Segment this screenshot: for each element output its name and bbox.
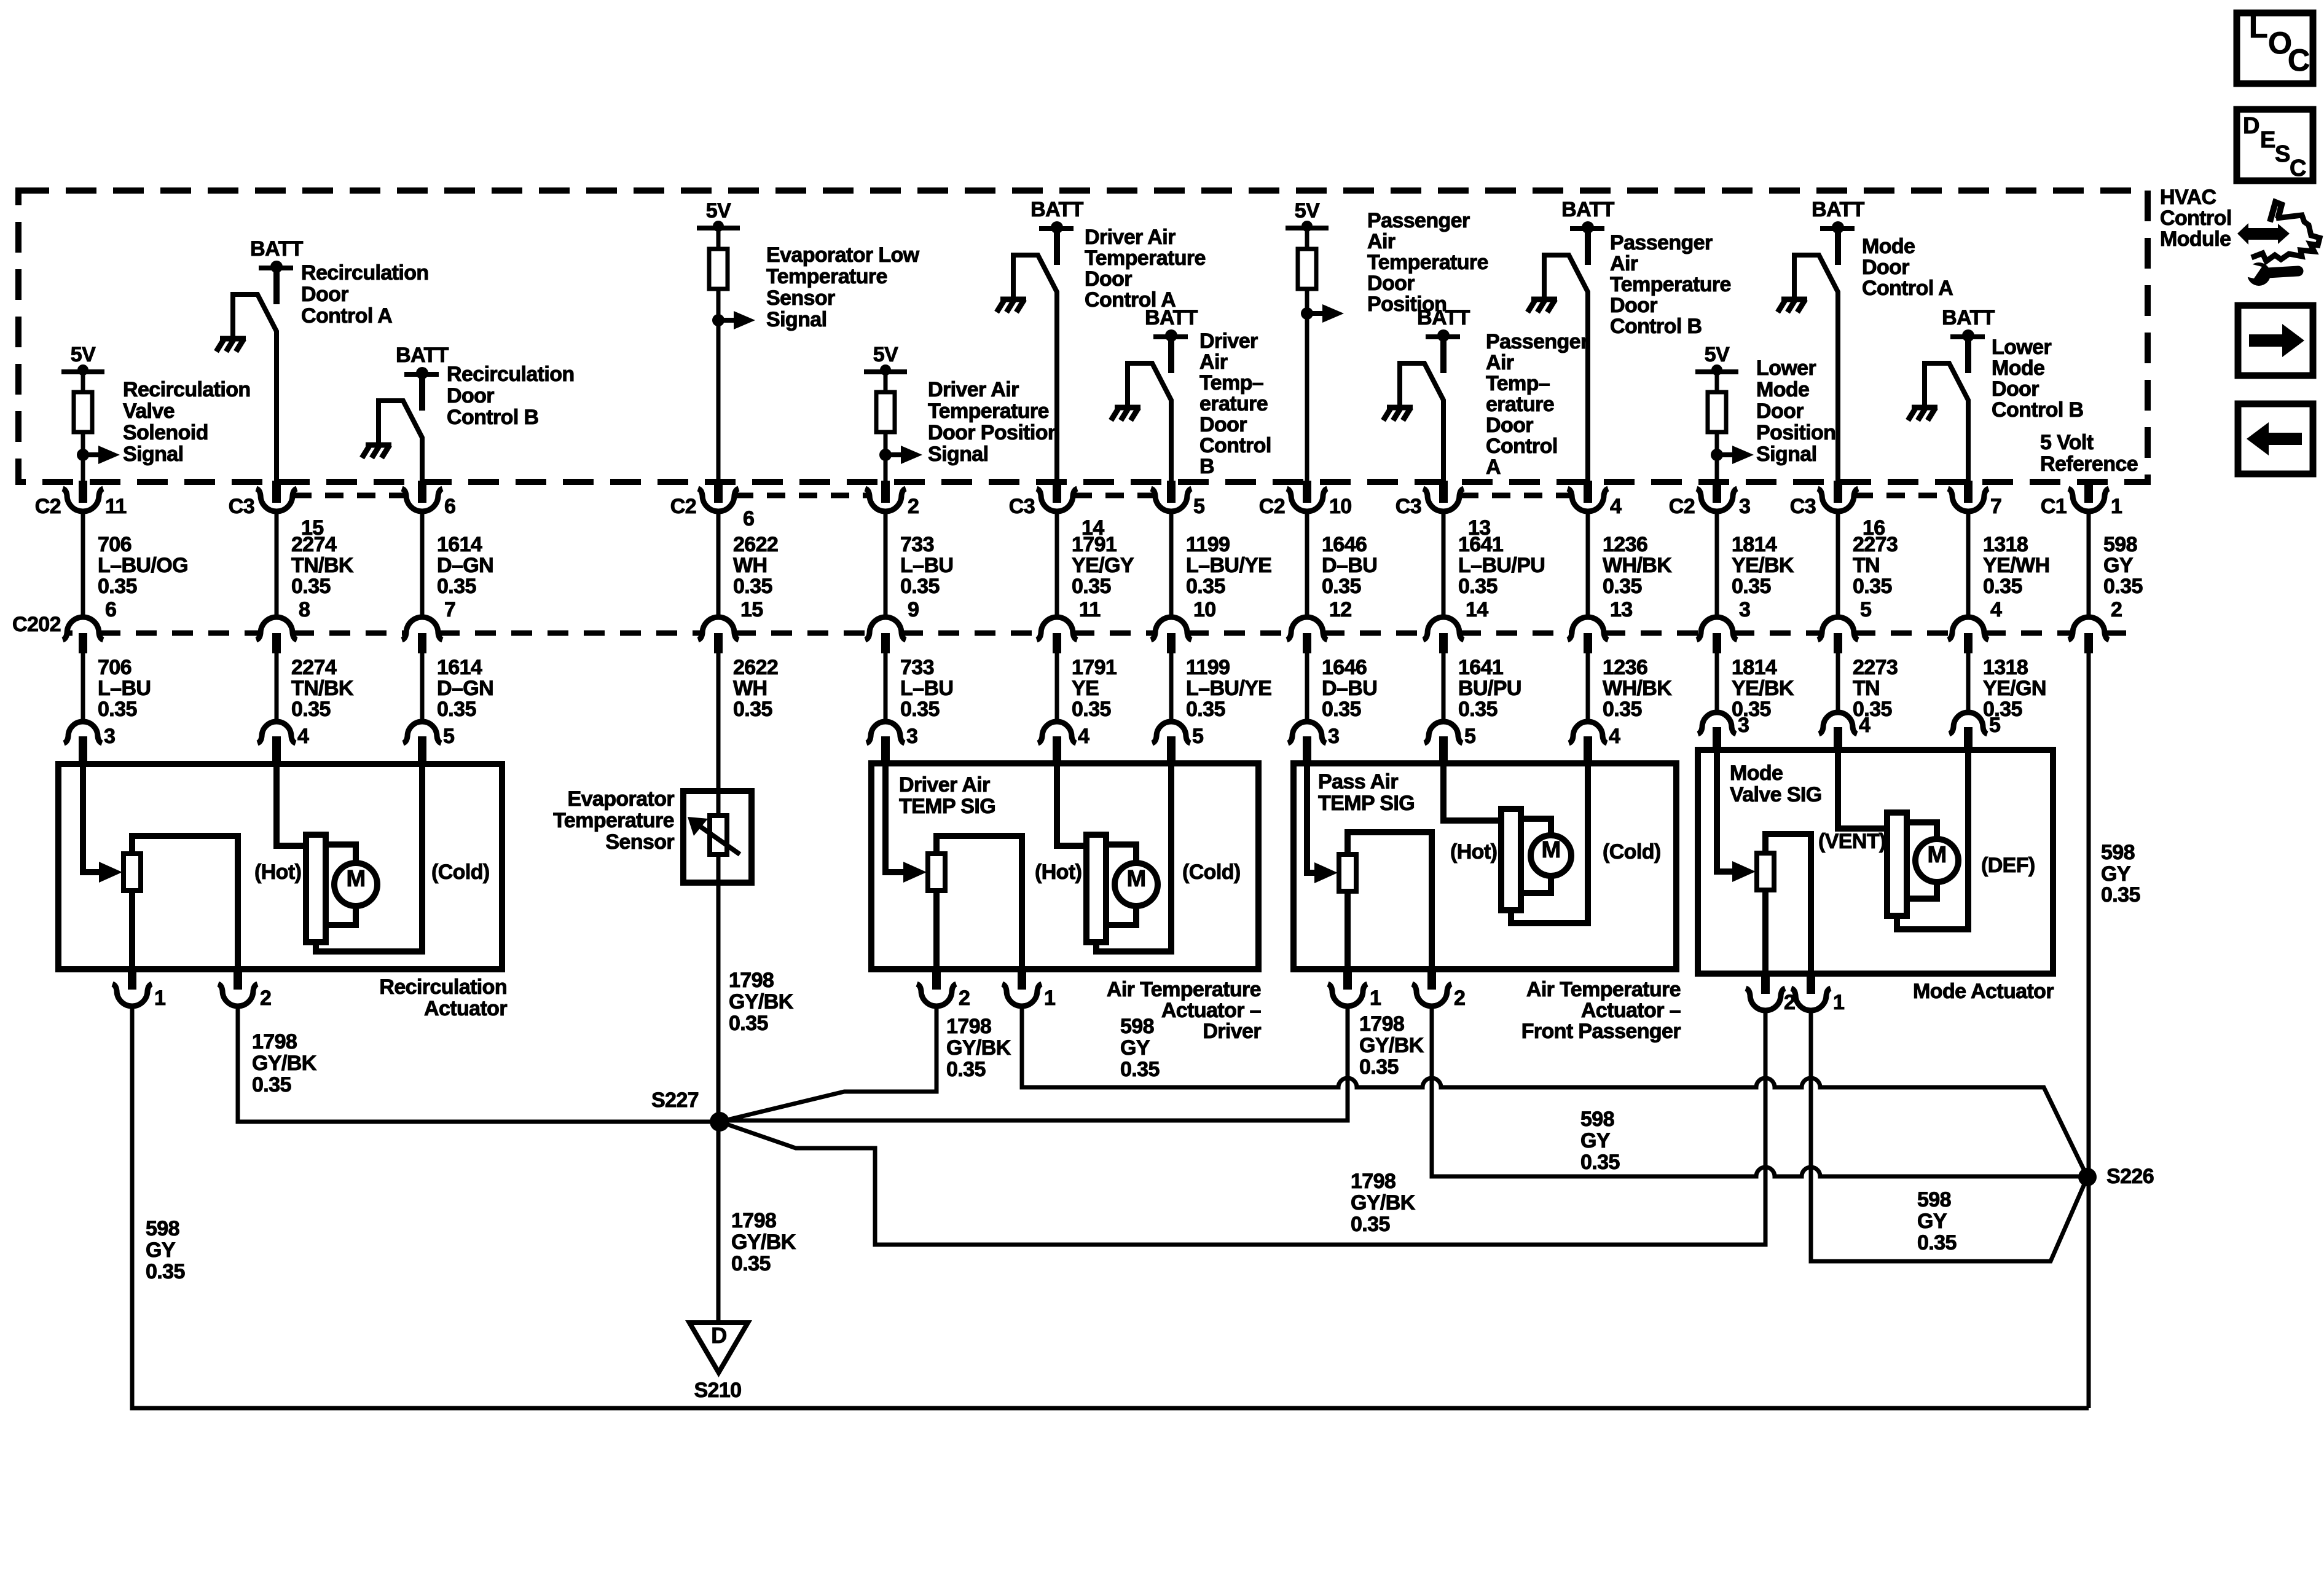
svg-text:Valve: Valve: [123, 400, 175, 423]
svg-text:5: 5: [1464, 725, 1475, 748]
svg-text:Actuator –: Actuator –: [1161, 999, 1261, 1022]
svg-text:0.35: 0.35: [733, 698, 772, 721]
svg-text:4: 4: [1990, 598, 2002, 621]
svg-text:WH/BK: WH/BK: [1603, 677, 1672, 700]
svg-text:BATT: BATT: [1417, 306, 1470, 329]
svg-text:0.35: 0.35: [2103, 575, 2143, 598]
connector C3 body dashes (pins 14-5): [1074, 493, 1155, 498]
wire: pot bottom to lower pin (Driver Air Temperature Actuator): [933, 891, 940, 969]
svg-text:Driver Air: Driver Air: [899, 773, 990, 797]
svg-text:Door: Door: [1610, 294, 1657, 317]
svg-text:Air Temperature: Air Temperature: [1526, 978, 1681, 1001]
wire 1614 D-GN 0.35 (module to C202 pin 7): [420, 511, 425, 617]
svg-text:(Cold): (Cold): [1182, 860, 1241, 884]
svg-text:GY: GY: [2103, 554, 2134, 577]
wire 706 L-BU/OG 0.35 (module to C202 pin 6): [81, 511, 85, 617]
svg-text:2273: 2273: [1853, 656, 1898, 679]
wire: position signal feed inside Mode Actuator: [1717, 750, 1733, 872]
svg-text:A: A: [1486, 455, 1501, 479]
svg-text:C2: C2: [35, 495, 61, 518]
wire: motor feed inside Passenger Air Temperature Actuator: [1443, 763, 1505, 821]
svg-text:5V: 5V: [1705, 343, 1730, 366]
wire: pot top over to second pin (Mode Actuator): [1765, 834, 1811, 974]
svg-text:C: C: [2288, 43, 2310, 77]
svg-text:YE/BK: YE/BK: [1732, 554, 1794, 577]
svg-text:2: 2: [2111, 598, 2122, 621]
svg-text:Lower: Lower: [1992, 336, 2051, 359]
svg-text:Air Temperature: Air Temperature: [1107, 978, 1261, 1001]
svg-text:Door: Door: [447, 384, 494, 408]
connector C202 pin 2 terminal: [2068, 617, 2109, 640]
svg-text:1641: 1641: [1458, 533, 1503, 556]
potentiometer element (Mode Actuator): [1757, 853, 1774, 890]
svg-text:M: M: [1126, 866, 1145, 892]
svg-text:Mode: Mode: [1756, 378, 1809, 401]
svg-text:Valve SIG: Valve SIG: [1730, 783, 1822, 806]
svg-text:Control B: Control B: [447, 406, 539, 429]
svg-text:1: 1: [2111, 495, 2122, 518]
svg-text:TEMP SIG: TEMP SIG: [899, 795, 995, 818]
svg-text:15: 15: [740, 598, 763, 621]
connector C202 pin 5 terminal: [1818, 617, 1858, 640]
svg-text:1798: 1798: [252, 1030, 297, 1053]
resistor: lower mode door position pull-up: [1708, 392, 1726, 432]
actuator connector pin 5: [1949, 712, 1987, 734]
connector C202 pin 13 terminal: [1568, 617, 1608, 640]
svg-text:TN: TN: [1853, 554, 1880, 577]
svg-text:5: 5: [1989, 714, 2000, 737]
svg-text:706: 706: [98, 656, 132, 679]
wire 733 L-BU 0.35 (module to C202 pin 9): [884, 511, 888, 617]
connector pin 7 at module exit: [1964, 481, 1973, 503]
svg-text:5: 5: [1860, 598, 1871, 621]
svg-text:WH/BK: WH/BK: [1603, 554, 1672, 577]
actuator bottom pin 1 (Passenger Air Temperature Actuator): [1343, 968, 1352, 990]
junction + signal arrow: driver air temperature door position signal: [879, 449, 892, 461]
svg-text:1236: 1236: [1603, 656, 1647, 679]
wire 1236 WH/BK 0.35 (C202 to actuator pin 4): [1586, 653, 1590, 720]
svg-text:GY/BK: GY/BK: [1359, 1034, 1424, 1057]
svg-text:0.35: 0.35: [1458, 698, 1498, 721]
thermistor diagonal arrow: [701, 827, 740, 854]
svg-text:(Hot): (Hot): [1035, 860, 1082, 884]
wire: motor feed inside Recirculation Actuator: [277, 764, 310, 846]
svg-text:BU/PU: BU/PU: [1458, 677, 1521, 700]
junction + signal arrow: passenger air temperature door position: [1301, 307, 1313, 320]
svg-text:Recirculation: Recirculation: [301, 261, 429, 285]
svg-text:Control: Control: [2160, 207, 2232, 230]
svg-text:0.35: 0.35: [437, 575, 476, 598]
svg-text:(Cold): (Cold): [431, 860, 490, 884]
motor M circle (Recirculation Actuator): [334, 863, 377, 906]
wire through evaporator temperature sensor: [716, 791, 721, 883]
svg-text:5: 5: [1193, 495, 1204, 518]
svg-text:11: 11: [1079, 598, 1101, 621]
connector pin 3 (C2) at module exit: [1713, 481, 1721, 503]
svg-text:Temperature: Temperature: [1085, 246, 1206, 270]
svg-text:Temp–: Temp–: [1199, 371, 1263, 395]
svg-text:0.35: 0.35: [1186, 575, 1225, 598]
svg-text:C: C: [2290, 156, 2306, 181]
svg-text:0.35: 0.35: [731, 1252, 771, 1275]
svg-text:L–BU: L–BU: [900, 677, 953, 700]
svg-text:Door: Door: [1862, 256, 1909, 279]
svg-text:YE/GN: YE/GN: [1983, 677, 2046, 700]
svg-text:GY: GY: [1120, 1036, 1150, 1060]
resistor: evaporator temp sensor pull-up: [709, 249, 728, 289]
wiper arrow into potentiometer (Recirculation Actuator): [99, 862, 122, 883]
svg-text:D: D: [2243, 113, 2259, 139]
svg-text:3: 3: [1738, 714, 1749, 737]
svg-text:5V: 5V: [873, 343, 898, 366]
ground symbol: mode door control A: [1781, 297, 1807, 302]
svg-text:0.35: 0.35: [1732, 575, 1771, 598]
svg-text:GY/BK: GY/BK: [729, 990, 794, 1014]
svg-text:C2: C2: [1669, 495, 1695, 518]
wire 1791 YE 0.35 (C202 to actuator pin 4): [1055, 653, 1059, 720]
connector C3 body dashes (pins 13-4): [1460, 493, 1571, 498]
svg-text:Door: Door: [1486, 414, 1533, 437]
svg-text:GY: GY: [1917, 1210, 1947, 1233]
svg-text:598: 598: [1580, 1108, 1614, 1131]
Air Temperature Actuator - Driver box: [871, 763, 1258, 969]
wrench icon: [2247, 262, 2271, 286]
svg-text:Driver: Driver: [1203, 1020, 1261, 1043]
svg-text:E: E: [2260, 127, 2275, 153]
actuator connector pin 3: [1698, 712, 1736, 734]
svg-text:2: 2: [908, 495, 919, 518]
wire 1646 D-BU 0.35 (C202 to actuator pin 3): [1305, 653, 1309, 720]
connector C202 pin 4 terminal: [1948, 617, 1988, 640]
connector pin 15 (C3) at module exit: [272, 481, 281, 503]
svg-text:Door: Door: [1085, 267, 1132, 291]
svg-text:4: 4: [1859, 714, 1871, 737]
svg-text:598: 598: [146, 1217, 179, 1240]
wire 598 GY 0.35 (module to C202 pin 2): [2087, 511, 2091, 617]
wire 1798 GY/BK 0.35: passenger pin 1 to S227: [720, 1006, 1348, 1120]
ground symbol: recirculation door control A: [220, 336, 246, 342]
svg-text:1791: 1791: [1072, 656, 1117, 679]
connector pin 10 (C2) at module exit: [1303, 481, 1311, 503]
connector C202 pin 3 terminal: [1697, 617, 1737, 640]
svg-text:4: 4: [1078, 725, 1089, 748]
svg-text:9: 9: [908, 598, 919, 621]
svg-text:Signal: Signal: [1756, 443, 1816, 466]
svg-text:0.35: 0.35: [98, 575, 137, 598]
svg-text:0.35: 0.35: [1072, 575, 1111, 598]
svg-text:YE/GY: YE/GY: [1072, 554, 1134, 577]
svg-text:GY/BK: GY/BK: [731, 1231, 796, 1254]
svg-text:1814: 1814: [1732, 533, 1777, 556]
motor commutator body (Mode Actuator): [1887, 813, 1907, 916]
svg-text:0.35: 0.35: [1322, 575, 1361, 598]
component-location car icon with double arrow: [2237, 223, 2290, 245]
svg-text:S: S: [2275, 141, 2290, 167]
svg-text:Door: Door: [1367, 272, 1415, 295]
wire 1641 BU/PU 0.35 (C202 to actuator pin 5): [1442, 653, 1446, 720]
wire: motor return to cold-side pin (Passenger Air Temperature Actuator): [1511, 763, 1588, 923]
motor M circle (Passenger Air Temperature Actuator): [1531, 835, 1571, 876]
svg-text:Door: Door: [1992, 377, 2039, 401]
svg-text:(VENT): (VENT): [1818, 830, 1886, 853]
svg-text:Signal: Signal: [928, 443, 988, 466]
motor commutator body (Passenger Air Temperature Actuator): [1501, 809, 1521, 910]
svg-text:Reference: Reference: [2040, 452, 2138, 476]
svg-text:Module: Module: [2160, 227, 2231, 251]
potentiometer element (Driver Air Temperature Actuator): [928, 854, 945, 891]
wire 2622 WH 0.35 (module to C202 pin 15): [716, 511, 721, 617]
svg-text:GY: GY: [2101, 862, 2131, 886]
svg-text:Air: Air: [1610, 252, 1638, 275]
connector C202 pin 12 terminal: [1287, 617, 1327, 640]
svg-text:598: 598: [1120, 1015, 1154, 1038]
svg-text:0.35: 0.35: [1603, 698, 1642, 721]
svg-text:0.35: 0.35: [291, 698, 331, 721]
svg-text:2: 2: [260, 986, 271, 1010]
svg-text:1791: 1791: [1072, 533, 1117, 556]
motor brush brackets (Mode Actuator): [1907, 822, 1937, 839]
svg-text:Passenger: Passenger: [1367, 209, 1470, 232]
svg-text:2622: 2622: [733, 656, 778, 679]
svg-text:0.35: 0.35: [252, 1073, 291, 1097]
svg-text:B: B: [1199, 455, 1214, 478]
svg-text:7: 7: [444, 598, 455, 621]
svg-text:Temperature: Temperature: [553, 809, 674, 832]
motor M circle (Mode Actuator): [1915, 839, 1958, 882]
wire 1798 GY/BK 0.35: S227 branch to mode pin 2: [720, 1010, 1765, 1245]
svg-text:YE: YE: [1072, 677, 1099, 700]
svg-text:C1: C1: [2041, 495, 2067, 518]
svg-text:Control: Control: [1199, 434, 1271, 457]
svg-text:0.35: 0.35: [900, 575, 940, 598]
svg-text:0.35: 0.35: [1580, 1151, 1620, 1174]
svg-text:TEMP SIG: TEMP SIG: [1318, 792, 1415, 815]
wiper arrow into potentiometer (Driver Air Temperature Actuator): [903, 862, 927, 883]
wire 1798 GY/BK 0.35: recirc pin 2 to S227: [238, 1006, 720, 1122]
actuator bottom pin 2 (Driver Air Temperature Actuator): [932, 968, 941, 990]
switch contact: mode door control A: [1794, 255, 1838, 482]
wire 1814 YE/BK 0.35 (C202 to actuator pin 3): [1715, 653, 1719, 711]
svg-text:L–BU/YE: L–BU/YE: [1186, 554, 1271, 577]
actuator connector pin 5: [1152, 722, 1190, 743]
svg-text:Actuator –: Actuator –: [1581, 999, 1681, 1022]
switch contact: recirculation door control B: [379, 401, 422, 482]
svg-text:598: 598: [2103, 533, 2137, 556]
svg-text:0.35: 0.35: [946, 1058, 986, 1081]
svg-text:3: 3: [1328, 725, 1339, 748]
motor brush brackets (Passenger Air Temperature Actuator): [1521, 819, 1551, 835]
actuator connector pin 4: [257, 722, 296, 743]
actuator bottom pin 1 (Driver Air Temperature Actuator): [1018, 968, 1026, 990]
connector C202 pin 10 terminal: [1151, 617, 1191, 640]
svg-text:L–BU: L–BU: [900, 554, 953, 577]
svg-text:TN: TN: [1853, 677, 1880, 700]
connector pin 6 (C2) at module exit: [714, 481, 723, 503]
svg-text:1798: 1798: [729, 969, 774, 992]
svg-text:14: 14: [1466, 598, 1488, 621]
svg-text:Driver Air: Driver Air: [1085, 226, 1176, 249]
svg-text:0.35: 0.35: [1917, 1231, 1957, 1254]
svg-text:M: M: [346, 866, 365, 892]
svg-text:598: 598: [2101, 841, 2135, 864]
svg-text:Temperature: Temperature: [766, 265, 887, 288]
wire 1199 L-BU/YE 0.35 (C202 to actuator pin 5): [1169, 653, 1174, 720]
potentiometer element (Recirculation Actuator): [124, 854, 141, 891]
svg-text:Front Passenger: Front Passenger: [1521, 1020, 1681, 1043]
wire 1791 YE/GY 0.35 (module to C202 pin 11): [1055, 511, 1059, 617]
svg-text:BATT: BATT: [396, 344, 449, 367]
svg-text:BATT: BATT: [250, 237, 304, 261]
wire 1199 L-BU/YE 0.35 (module to C202 pin 10): [1169, 511, 1174, 617]
connector C202 pin 15 terminal: [698, 617, 739, 640]
ground symbol: driver air temperature door control A: [1000, 297, 1026, 302]
svg-text:1641: 1641: [1458, 656, 1503, 679]
svg-text:GY/BK: GY/BK: [1351, 1191, 1416, 1215]
svg-text:D–BU: D–BU: [1322, 554, 1377, 577]
svg-text:1199: 1199: [1186, 533, 1230, 556]
svg-text:3: 3: [104, 725, 115, 748]
svg-text:GY: GY: [1580, 1129, 1611, 1152]
ground symbol: lower mode door control B: [1912, 405, 1937, 411]
wire: pot bottom to lower pin (Recirculation Actuator): [129, 891, 135, 969]
svg-text:Control: Control: [1486, 435, 1558, 458]
svg-text:(Hot): (Hot): [1450, 840, 1497, 864]
ground symbol: driver air temperature door control B: [1115, 405, 1140, 411]
wire: position signal feed inside Driver Air Temperature Actuator: [885, 763, 905, 872]
motor brush brackets (Recirculation Actuator): [326, 845, 356, 863]
svg-text:Air: Air: [1199, 350, 1228, 374]
svg-text:Temperature: Temperature: [1367, 251, 1488, 274]
svg-text:1798: 1798: [1359, 1012, 1404, 1036]
svg-text:Solenoid: Solenoid: [123, 421, 208, 444]
svg-text:L–BU/OG: L–BU/OG: [98, 554, 188, 577]
svg-text:Control B: Control B: [1992, 398, 2084, 422]
svg-text:L: L: [2249, 10, 2267, 44]
svg-text:2: 2: [959, 986, 970, 1010]
wire 1798 GY/BK 0.35: evaporator sensor to S227 and on to S210: [716, 883, 721, 1323]
svg-text:0.35: 0.35: [1322, 698, 1361, 721]
svg-text:0.35: 0.35: [1458, 575, 1498, 598]
svg-text:GY/BK: GY/BK: [946, 1036, 1011, 1060]
svg-text:BATT: BATT: [1145, 306, 1198, 329]
svg-text:Passenger: Passenger: [1610, 231, 1713, 254]
svg-text:Sensor: Sensor: [605, 830, 674, 854]
svg-text:1: 1: [154, 986, 165, 1010]
svg-text:1: 1: [1370, 986, 1381, 1010]
svg-text:0.35: 0.35: [291, 575, 331, 598]
junction + signal arrow: evaporator low temperature sensor signal: [712, 314, 724, 326]
svg-text:Mode: Mode: [1730, 762, 1783, 785]
Evaporator Temperature Sensor box: [683, 791, 752, 883]
svg-text:Recirculation: Recirculation: [379, 975, 507, 999]
svg-text:Mode Actuator: Mode Actuator: [1913, 980, 2054, 1003]
svg-text:HVAC: HVAC: [2160, 186, 2216, 209]
wire: pot bottom to lower pin (Passenger Air Temperature Actuator): [1345, 891, 1351, 969]
actuator bottom pin 1 (Mode Actuator): [1807, 972, 1815, 994]
svg-text:0.35: 0.35: [729, 1012, 768, 1035]
svg-text:10: 10: [1329, 495, 1352, 518]
svg-text:BATT: BATT: [1812, 198, 1865, 221]
svg-text:Control A: Control A: [301, 304, 392, 328]
svg-text:C2: C2: [1259, 495, 1285, 518]
svg-text:S226: S226: [2106, 1165, 2154, 1188]
actuator connector pin 3: [866, 722, 905, 743]
wire 598 GY 0.35: driver pin 1 across (hops) to S226: [1022, 1006, 2087, 1177]
wire 1318 YE/GN 0.35 (C202 to actuator pin 5): [1966, 653, 1971, 711]
connector C202 pin 8 terminal: [256, 617, 297, 640]
ground symbol: passenger air temperature door control A: [1387, 405, 1413, 411]
svg-text:Control B: Control B: [1610, 315, 1702, 338]
forward-reference arrow legend box: [2238, 305, 2313, 376]
svg-text:6: 6: [105, 598, 116, 621]
wire 598 GY 0.35: passenger pin 2 across (hops) to S226: [1432, 1006, 2087, 1176]
svg-text:6: 6: [743, 507, 754, 530]
svg-text:0.35: 0.35: [146, 1260, 185, 1283]
switch contact: driver air temperature door control A: [1013, 255, 1057, 482]
actuator bottom pin 1 (Recirculation Actuator): [128, 968, 136, 990]
junction + signal arrow: lower mode door position signal: [1711, 449, 1723, 461]
Mode Actuator box: [1698, 750, 2053, 974]
connector pin 2 at module exit: [881, 481, 890, 503]
svg-text:0.35: 0.35: [1359, 1055, 1399, 1079]
wire 1614 D-GN 0.35 (C202 to actuator pin 5): [420, 653, 425, 720]
svg-text:erature: erature: [1486, 393, 1554, 416]
connector pin 5 at module exit: [1167, 481, 1176, 503]
svg-text:Air: Air: [1367, 230, 1396, 253]
svg-text:S227: S227: [651, 1089, 699, 1112]
switch contact: driver air temperature door control B: [1128, 363, 1171, 482]
svg-text:L–BU: L–BU: [98, 677, 151, 700]
svg-text:(DEF): (DEF): [1981, 854, 2035, 877]
splice S226: [2078, 1168, 2097, 1186]
svg-text:2274: 2274: [291, 656, 337, 679]
backward-reference arrow legend box: [2238, 404, 2313, 474]
motor commutator body (Recirculation Actuator): [306, 835, 326, 942]
LOC legend box: [2237, 13, 2313, 84]
svg-text:Recirculation: Recirculation: [447, 363, 575, 386]
HVAC control module dashed boundary box: [18, 191, 2148, 482]
Recirculation Actuator box: [58, 764, 502, 969]
wire: position signal feed inside Recirculation Actuator: [83, 764, 100, 872]
svg-text:M: M: [1927, 842, 1946, 868]
wire: motor return to cold-side pin (Driver Air Temperature Actuator): [1096, 763, 1171, 951]
svg-text:Evaporator Low: Evaporator Low: [766, 243, 920, 267]
svg-text:D: D: [711, 1323, 726, 1348]
potentiometer element (Passenger Air Temperature Actuator): [1339, 854, 1356, 891]
wire: pot top over to second pin (Driver Air Temperature Actuator): [936, 836, 1022, 969]
svg-text:L–BU/PU: L–BU/PU: [1458, 554, 1545, 577]
svg-text:5: 5: [1192, 725, 1203, 748]
connector C202 pin 7 terminal: [402, 617, 442, 640]
wire: pot top over to second pin (Recirculation Actuator): [132, 836, 238, 969]
svg-text:WH: WH: [733, 677, 767, 700]
connector pin 11 (C2) at module exit: [79, 481, 87, 503]
svg-text:Mode: Mode: [1862, 235, 1915, 258]
splice S227: [710, 1112, 729, 1132]
switch contact: passenger air temperature door control B: [1544, 255, 1588, 482]
switch contact: recirculation door control A: [233, 294, 277, 482]
actuator bottom pin 2 (Recirculation Actuator): [234, 968, 242, 990]
svg-text:D–GN: D–GN: [437, 554, 493, 577]
svg-text:733: 733: [900, 656, 934, 679]
wire: col4 5V to connector: [716, 228, 721, 482]
svg-text:M: M: [1541, 837, 1560, 863]
svg-text:1614: 1614: [437, 656, 482, 679]
wire 598 GY 0.35: recirc pin 1 down and across bottom to S226 riser: [132, 1006, 2089, 1408]
svg-text:Door: Door: [1199, 413, 1247, 436]
svg-text:Position: Position: [1756, 421, 1835, 444]
connector pin 16 (C3) at module exit: [1834, 481, 1842, 503]
